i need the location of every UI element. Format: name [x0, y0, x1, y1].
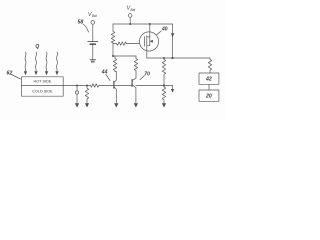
- wire Q2 emitter: [132, 85, 136, 104]
- wire source rail: [147, 57, 210, 59]
- svg-text:40: 40: [161, 26, 168, 32]
- svg-text:20: 20: [205, 94, 212, 100]
- wire emitter tap row: [136, 85, 173, 87]
- leader 70: [140, 76, 144, 80]
- ground arrow Q2: [134, 103, 138, 107]
- junction dot source/R4: [163, 57, 165, 59]
- divider hot/cold: [22, 85, 64, 87]
- wire base row: [99, 85, 114, 87]
- leader 44: [106, 74, 110, 80]
- resistor R-gate (horizontal): [117, 42, 127, 45]
- resistor R3: [134, 56, 137, 73]
- box 20: [199, 90, 219, 101]
- resistor R6 (to box 42): [208, 58, 211, 73]
- resistor R2: [113, 56, 116, 72]
- wire R2 to Q1 collector: [114, 72, 116, 83]
- svg-text:62: 62: [7, 71, 13, 77]
- wire gate to mosfet: [127, 43, 140, 45]
- junction dot tap/R column: [163, 84, 165, 86]
- wire Vbat stub: [129, 17, 131, 24]
- node circle drop A: [75, 91, 78, 94]
- junction dot source/right-drop: [171, 57, 173, 59]
- resistor R-B (vertical): [85, 86, 88, 104]
- battery B1 plates: [88, 41, 98, 43]
- leader 62: [12, 75, 21, 80]
- wire Q1 emitter: [114, 87, 116, 104]
- svg-text:Bat: Bat: [92, 14, 97, 18]
- wire drop A: [76, 86, 78, 91]
- heat arrow 1: [24, 52, 27, 71]
- wire TEG output: [63, 85, 90, 87]
- wire battery bottom: [92, 45, 94, 59]
- svg-text:COLD SIDE: COLD SIDE: [32, 89, 53, 93]
- junction dot rail/Vbat: [129, 23, 131, 25]
- mosfet source stub: [147, 37, 150, 46]
- mosfet gate bar: [144, 37, 146, 47]
- svg-text:HOT SIDE: HOT SIDE: [33, 80, 51, 84]
- heat arrow 3: [45, 52, 48, 71]
- mosfet Q40 circle: [139, 32, 158, 51]
- wire drop A lower: [76, 94, 78, 104]
- heat arrow 4: [56, 52, 59, 71]
- ground arrow B: [85, 103, 89, 107]
- arrow on right drop: [171, 33, 174, 37]
- transistor Q1 (44): [113, 81, 115, 88]
- svg-text:Bat: Bat: [131, 8, 136, 12]
- box 42: [199, 73, 219, 84]
- resistor R5: [162, 86, 165, 104]
- leader 40: [157, 31, 162, 35]
- svg-text:44: 44: [101, 70, 108, 76]
- wire battery top: [92, 24, 94, 41]
- ground arrow A: [75, 103, 79, 107]
- wire drain to rail: [149, 24, 151, 37]
- wire R3 to Q2 collector: [132, 73, 136, 81]
- junction dot drop B: [86, 85, 88, 87]
- resistor R-base (horizontal): [91, 84, 100, 87]
- svg-text:70: 70: [144, 71, 150, 77]
- wire R4 to tap: [163, 76, 165, 86]
- wire tap stub down: [172, 86, 174, 90]
- junction dot drop A: [76, 85, 78, 87]
- wire mosfet source drop: [146, 47, 148, 58]
- wire base tie Q1-Q2: [114, 85, 132, 87]
- svg-text:Q: Q: [35, 44, 39, 50]
- ground arrow tap: [171, 89, 174, 93]
- battery 58 branch: terminal circle: [91, 21, 95, 25]
- wire branch to R3: [113, 55, 136, 57]
- wire right drop from rail: [172, 24, 174, 58]
- wire gate row: [113, 43, 117, 45]
- leader 58: [83, 24, 89, 32]
- heat arrow 2: [35, 52, 38, 71]
- mosfet body arrow: [147, 40, 154, 43]
- box 62 thermoelectric: [22, 77, 64, 96]
- wire left column mid: [112, 44, 114, 56]
- ground symbol battery: [90, 59, 95, 61]
- resistor R1 (left column upper): [111, 24, 114, 44]
- ground arrow R5: [162, 103, 166, 107]
- junction dot branch: [112, 55, 114, 57]
- wire between boxes: [208, 84, 210, 90]
- svg-text:58: 58: [78, 20, 84, 26]
- transistor Q2 (70): [131, 80, 133, 87]
- mosfet channel bar: [146, 36, 148, 47]
- junction dot rail/drain: [149, 23, 151, 25]
- node VBat terminal (right): [128, 14, 132, 18]
- resistor R4: [162, 58, 165, 76]
- mosfet drain stub: [147, 36, 150, 38]
- svg-text:42: 42: [205, 77, 212, 83]
- wire top rail: [113, 23, 173, 25]
- ground arrow Q1: [114, 103, 118, 107]
